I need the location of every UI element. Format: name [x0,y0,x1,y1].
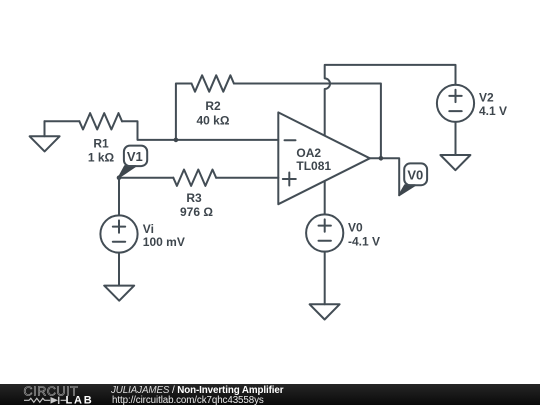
label R3 value [180,191,213,219]
source Vi [100,215,184,252]
svg-text:LAB: LAB [66,395,94,405]
ground (below V0) [310,304,340,319]
wire (feedback branch up to R2 left) [176,84,192,140]
wire (R1 right to op-amp inverting input) [122,121,278,140]
wire (R2 right, over to output node) [234,84,381,159]
wire (node V1 to R3 left) [119,177,173,179]
resistor R3 [173,170,216,186]
footer url [112,395,264,405]
node junction (R1/R2) [174,138,179,143]
wire (R3 right to op-amp non-inverting input) [216,177,278,179]
svg-text:R1: R1 [93,137,109,151]
footer title [111,385,283,396]
wire (op-amp negative supply pin to V0) [324,181,326,214]
wire (Vi to ground) [118,253,120,286]
label R1 value [88,137,115,165]
svg-text:100 mV: 100 mV [143,235,185,249]
svg-text:TL081: TL081 [296,159,331,173]
svg-text:1 kΩ: 1 kΩ [88,151,115,165]
svg-text:40 kΩ: 40 kΩ [197,114,230,128]
svg-text:976 Ω: 976 Ω [180,205,213,219]
svg-text:V0: V0 [348,221,363,235]
ground (below Vi) [104,286,134,301]
svg-text:-4.1 V: -4.1 V [348,235,380,249]
svg-text:V1: V1 [127,149,143,164]
flag V1 (net label) [119,146,147,178]
wire (V2 to ground) [455,122,457,155]
svg-text:V2: V2 [479,90,494,104]
svg-text:R3: R3 [186,191,202,205]
wire (V0 to ground) [324,252,326,305]
svg-text:V0: V0 [407,168,423,183]
source V0 [306,214,380,251]
node junction V1 [117,175,122,180]
flag V0 (net label) [399,163,427,195]
CircuitLab logo [0,384,100,405]
svg-text:OA2: OA2 [296,146,321,160]
resistor R1 [79,113,122,129]
svg-text:4.1 V: 4.1 V [479,104,507,118]
wire (ground to R1 left) [45,120,80,122]
wire (positive supply pin with hop over feedback wire) [325,65,456,135]
ground (left of R1) [30,121,60,151]
node junction (output) [379,156,384,161]
wire (op-amp output) [370,158,399,195]
svg-text:R2: R2 [205,99,221,113]
resistor R2 [192,75,234,91]
source V2 [437,85,507,122]
label R2 value [197,99,230,127]
ground (below V2) [440,155,470,170]
svg-text:Vi: Vi [143,222,154,236]
wire (node V1 down to Vi) [118,178,120,216]
footer bar [0,384,540,405]
op-amp OA2 [278,112,370,204]
